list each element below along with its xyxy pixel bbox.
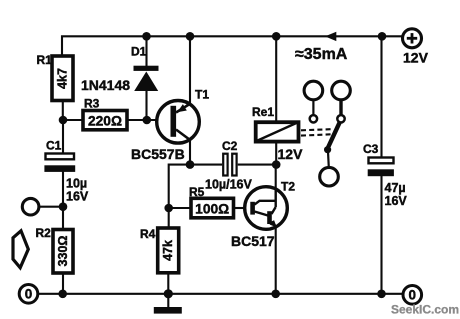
wire mid horizontal to C2	[169, 165, 222, 208]
input arrow symbol	[13, 231, 28, 268]
svg-text:T1: T1	[195, 88, 209, 102]
svg-text:R2: R2	[36, 226, 52, 240]
wire node to R4	[168, 208, 170, 228]
wire T2 collector	[275, 165, 277, 190]
input terminal	[22, 198, 39, 215]
svg-text:47k: 47k	[161, 240, 175, 261]
node top rail relay	[272, 32, 281, 41]
svg-text:330Ω: 330Ω	[56, 236, 70, 267]
wire D1 bottom	[145, 91, 147, 121]
svg-text:BC557B: BC557B	[131, 146, 185, 162]
wire R2 bottom	[62, 273, 64, 294]
svg-text:4k7: 4k7	[56, 68, 70, 89]
wire R3 right to base node	[127, 119, 157, 121]
switch lever	[328, 122, 340, 148]
svg-text:C3: C3	[363, 142, 379, 156]
svg-text:47µ: 47µ	[385, 181, 406, 195]
svg-text:C1: C1	[46, 139, 62, 153]
wire relay bottom to node	[275, 143, 277, 165]
wire R1 bottom to node	[62, 101, 64, 121]
resistor R1	[37, 53, 74, 101]
resistor R2	[36, 226, 74, 273]
wire switch common	[327, 152, 330, 168]
svg-text:R4: R4	[140, 227, 156, 241]
svg-text:0: 0	[409, 288, 417, 303]
switch contact B	[337, 115, 344, 122]
svg-text:0: 0	[25, 287, 33, 302]
svg-text:16V: 16V	[385, 194, 408, 208]
transistor T1 BC557B	[131, 88, 209, 163]
node bottom rail R2	[58, 290, 67, 299]
terminal 0 bottom right	[403, 286, 422, 305]
node R5 R4	[164, 204, 173, 213]
svg-text:10µ: 10µ	[66, 177, 87, 191]
wire contact A	[312, 100, 314, 115]
svg-text:SeekIC.com: SeekIC.com	[391, 303, 459, 317]
transistor T2 BC517	[231, 180, 295, 250]
resistor R5	[189, 185, 234, 218]
wire C1 top	[62, 120, 64, 153]
wire bottom rail	[39, 293, 404, 295]
wire R3 left	[62, 119, 83, 121]
svg-text:100Ω: 100Ω	[195, 201, 229, 216]
svg-text:10µ/16V: 10µ/16V	[205, 178, 252, 192]
svg-text:R3: R3	[84, 97, 100, 111]
svg-text:≈35mA: ≈35mA	[295, 46, 348, 63]
linkage dashed	[301, 129, 331, 135]
node relay C2 T2	[272, 160, 281, 169]
node bottom rail R4 ground	[164, 289, 173, 298]
svg-text:R5: R5	[189, 185, 205, 199]
capacitor C2	[205, 139, 252, 192]
wire R5 left	[169, 207, 191, 209]
wire input to node	[39, 206, 63, 208]
capacitor C1	[44, 139, 89, 204]
switch contact terminal A	[304, 81, 323, 100]
wire C3 top to rail	[380, 36, 382, 157]
node T1 collector	[186, 160, 195, 169]
wire contact B	[339, 100, 342, 115]
svg-text:C2: C2	[222, 139, 238, 153]
wire top rail	[62, 36, 403, 56]
switch pivot	[324, 146, 331, 153]
node bottom rail T2	[271, 290, 280, 299]
svg-text:16V: 16V	[66, 190, 89, 204]
node R3 D1 base	[143, 116, 152, 125]
wire C2 right to relay node	[238, 164, 277, 166]
node top rail D1	[142, 32, 151, 41]
wire T1 emitter to rail	[189, 36, 191, 104]
terminal 0 bottom left	[19, 285, 38, 304]
node bottom rail C3	[377, 290, 386, 299]
node top rail T1 emitter	[186, 32, 195, 41]
svg-text:1N4148: 1N4148	[81, 77, 130, 93]
resistor R4	[140, 227, 179, 273]
wire D1 top	[145, 36, 147, 66]
switch common terminal	[320, 167, 339, 186]
node input C1 R2	[59, 202, 68, 211]
wire T1 collector down	[189, 140, 191, 165]
switch contact terminal B	[332, 81, 351, 100]
svg-text:BC517: BC517	[231, 233, 275, 249]
svg-text:Re1: Re1	[252, 105, 274, 119]
capacitor C3	[363, 142, 407, 208]
terminal +12V	[403, 29, 429, 66]
wire ground stub	[167, 294, 169, 307]
relay Re1	[252, 105, 303, 162]
svg-text:12V: 12V	[403, 50, 429, 66]
wire R4 bottom to rail	[167, 273, 169, 294]
wire R5 right to T2 base	[234, 207, 246, 209]
diode D1	[81, 45, 159, 94]
node R1 R3 C1	[59, 116, 68, 125]
svg-text:D1: D1	[131, 45, 147, 59]
svg-text:R1: R1	[37, 53, 53, 67]
wire relay top to rail	[275, 36, 277, 120]
ground	[154, 307, 182, 314]
wire C3 bottom to rail	[380, 176, 382, 294]
wire R2 top	[62, 207, 64, 230]
switch contact A	[310, 115, 317, 122]
resistor R3	[83, 97, 127, 130]
svg-text:220Ω: 220Ω	[88, 114, 122, 129]
wire C1 bottom	[62, 171, 64, 207]
svg-text:12V: 12V	[278, 146, 304, 162]
node top rail C3	[378, 32, 387, 41]
svg-text:T2: T2	[281, 180, 295, 194]
current arrow 35mA	[325, 32, 336, 41]
wire T2 emitter to rail	[275, 227, 277, 294]
